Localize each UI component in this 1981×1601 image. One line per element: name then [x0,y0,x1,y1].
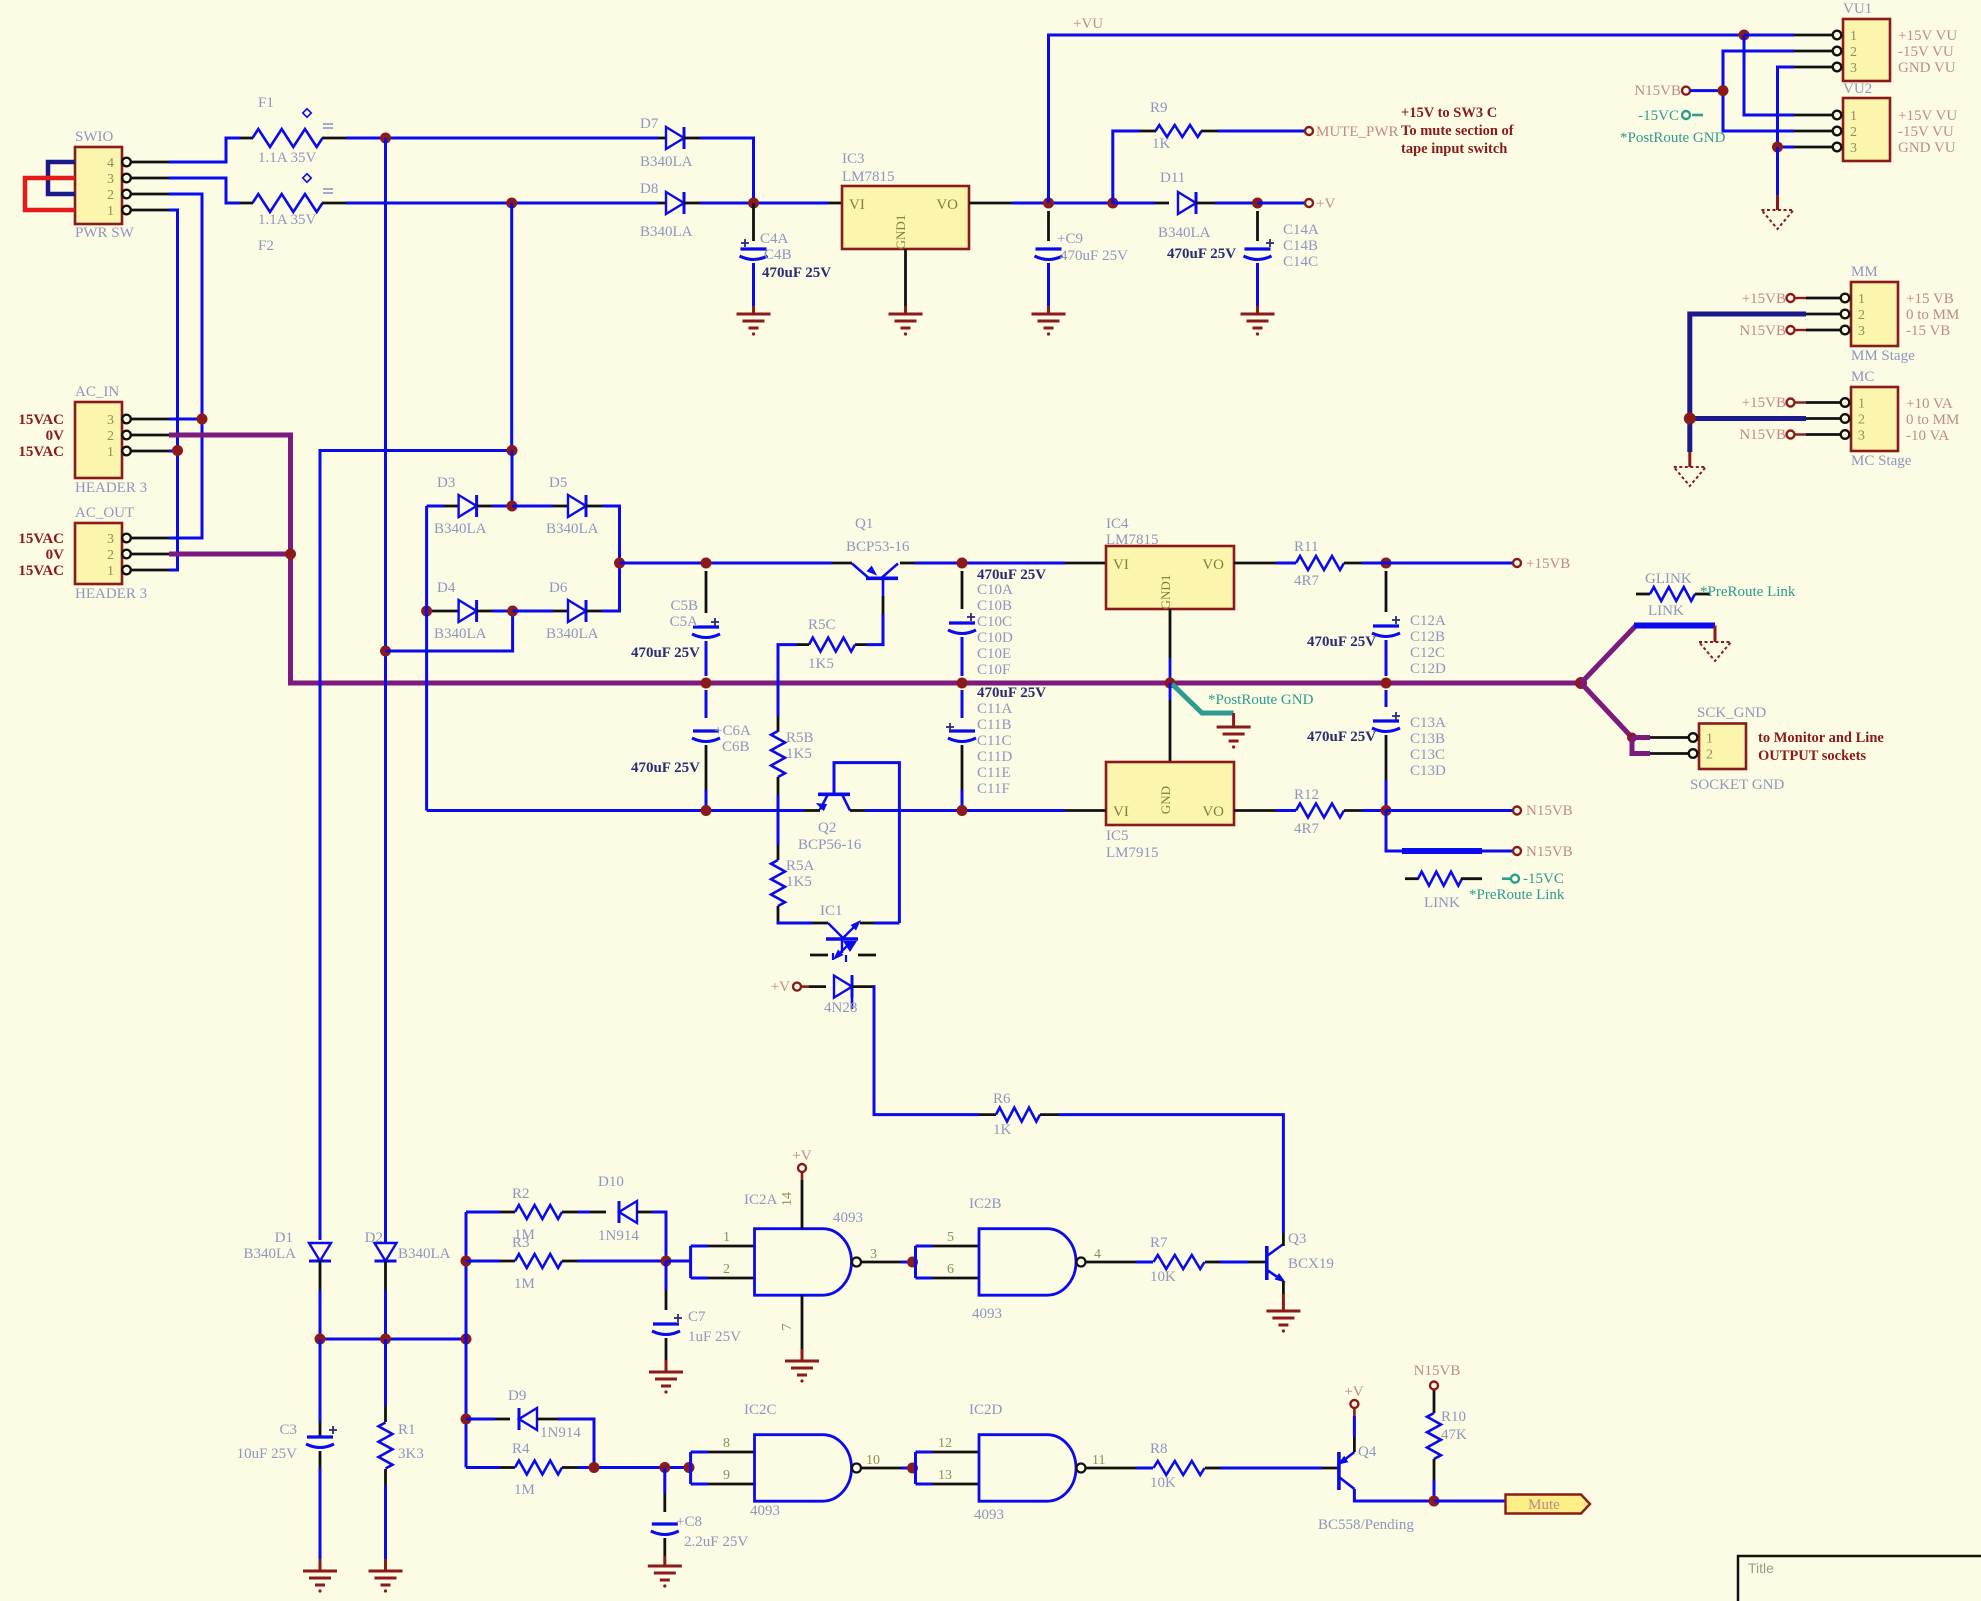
svg-text:AC_OUT: AC_OUT [75,505,134,521]
wire F1 to D7 rail y138 [346,137,658,140]
svg-text:15VAC: 15VAC [18,444,64,460]
svg-text:R6: R6 [993,1091,1011,1107]
junction D1 bus [315,1334,326,1345]
svg-text:13: 13 [938,1468,952,1483]
svg-text:+C9: +C9 [1057,231,1083,247]
svg-text:C7: C7 [688,1309,706,1325]
svg-text:C13A: C13A [1410,715,1446,731]
port +15VB (MM pin1) [1787,294,1795,302]
svg-text:4: 4 [1094,1247,1101,1262]
port +15VB (MC pin1) [1787,399,1795,407]
svg-text:LM7815: LM7815 [842,169,895,185]
svg-text:4R7: 4R7 [1294,821,1320,837]
port -15VC (teal lower) [1502,877,1511,880]
svg-text:B340LA: B340LA [434,521,487,537]
svg-text:R10: R10 [1441,1409,1466,1425]
diode D1 B340LA [244,1230,332,1339]
svg-text:4N28: 4N28 [824,1000,857,1016]
svg-text:*PostRoute GND: *PostRoute GND [1208,692,1314,708]
svg-text:C11B: C11B [977,717,1011,733]
svg-text:0V: 0V [46,547,65,563]
junction D9/R4 [589,1462,600,1473]
svg-text:D1: D1 [275,1230,293,1246]
port N15VB (lower) [1513,847,1521,855]
wire GND VU to ground [1776,147,1779,195]
resistor R6 1K [979,1091,1059,1138]
junction navy MC 0V [1684,413,1696,425]
svg-text:Title: Title [1748,1560,1774,1576]
svg-text:470uF 25V: 470uF 25V [631,645,700,661]
svg-text:VU1: VU1 [1843,1,1872,17]
nand gate IC2D 4093 [938,1402,1105,1523]
svg-text:1M: 1M [514,1276,535,1292]
svg-text:15VAC: 15VAC [18,412,64,428]
svg-text:C6B: C6B [722,739,750,755]
svg-text:2: 2 [1850,125,1857,140]
svg-text:D4: D4 [437,580,456,596]
wire +raw rail [620,562,833,565]
svg-text:3: 3 [107,532,114,547]
wire +15V VU to VU2 pin1 [1744,35,1794,115]
connector AC_IN HEADER 3 [18,384,169,496]
ground triangle VU [1762,210,1794,229]
svg-text:10uF 25V: 10uF 25V [237,1446,298,1462]
svg-text:470uF 25V: 470uF 25V [1060,248,1128,264]
capacitor C7 1uF 25V [652,1261,741,1372]
svg-text:C10A: C10A [977,582,1013,598]
svg-text:C12A: C12A [1410,613,1446,629]
wire switch loop red pins 3-1 [25,178,75,210]
svg-text:2: 2 [723,1262,730,1277]
svg-text:C14C: C14C [1283,254,1318,270]
svg-text:4093: 4093 [972,1306,1002,1322]
svg-text:+V: +V [1316,196,1335,212]
svg-text:R11: R11 [1294,539,1318,555]
svg-text:470uF 25V: 470uF 25V [1307,634,1376,650]
svg-text:4093: 4093 [974,1507,1004,1523]
svg-text:5: 5 [947,1230,954,1245]
resistor R5B 1K5 [771,716,814,845]
junction D3 cathode [507,501,518,512]
ground Q3 [1266,1310,1300,1313]
svg-text:*PreRoute Link: *PreRoute Link [1700,584,1796,600]
svg-text:D11: D11 [1160,170,1185,186]
svg-text:C11A: C11A [977,701,1012,717]
junction C12/C13 GND bus [1381,678,1392,689]
junction D9 left [461,1414,472,1425]
wire D3 cathode column [511,451,514,507]
svg-text:0V: 0V [46,428,65,444]
resistor R12 4R7 [1276,787,1386,837]
svg-text:VI: VI [1113,804,1129,820]
diode D3 B340LA [427,475,512,537]
wire purple 0V net AC_IN pin2 to AC_OUT pin2 to GND bus [169,435,305,683]
wire IC2C out [861,1467,901,1470]
wire 4N28 to R6 [873,987,979,1115]
fuse F1 1.1A 35V [240,95,346,166]
port N15VB [1513,807,1521,815]
svg-text:VO: VO [1202,804,1224,820]
svg-text:GND: GND [1158,786,1173,814]
junction column bus [461,1334,472,1345]
svg-text:VU2: VU2 [1843,81,1872,97]
svg-text:B340LA: B340LA [244,1246,297,1262]
svg-text:Q4: Q4 [1358,1444,1377,1460]
wire left column x466 [465,1212,468,1468]
svg-text:MM: MM [1851,264,1878,280]
wire D8 out [700,202,828,205]
capacitor C3 10uF 25V [237,1339,337,1571]
svg-text:VI: VI [1113,557,1129,573]
svg-text:C4A: C4A [760,231,789,247]
capacitor C6A/C6B 470uF 25V [631,690,751,811]
svg-text:MC Stage: MC Stage [1851,453,1912,469]
svg-text:BCX19: BCX19 [1288,1256,1334,1272]
wire VU1 pin1 stub [1744,34,1794,37]
svg-text:SWIO: SWIO [75,129,113,145]
wire GND link thick blue [1634,623,1715,629]
svg-text:3: 3 [1858,429,1865,444]
svg-text:Q3: Q3 [1288,1231,1306,1247]
svg-text:470uF 25V: 470uF 25V [762,265,831,281]
svg-text:2: 2 [107,548,114,563]
svg-text:1K5: 1K5 [786,746,812,762]
svg-text:+15V VU: +15V VU [1898,28,1957,44]
svg-text:15VAC: 15VAC [18,563,64,579]
capacitor C10A-F 470uF 25V [948,567,1046,678]
wire F2 column down [510,203,513,451]
svg-text:D10: D10 [598,1174,624,1190]
junction -15V VU column [1718,85,1729,96]
junction C12 top [1381,558,1392,569]
junction R3/D10/C7 [661,1256,672,1267]
svg-text:C4B: C4B [764,247,792,263]
capacitor C8 2.2uF 25V [651,1468,749,1567]
svg-text:R2: R2 [512,1186,530,1202]
svg-text:-15 VB: -15 VB [1906,323,1950,339]
junction +VU at VU1 pin1 [1739,30,1750,41]
ground triangle MM/MC [1688,452,1691,467]
svg-text:2: 2 [107,188,114,203]
connector SWIO (PWR SW) [75,129,169,241]
svg-text:C12C: C12C [1410,645,1445,661]
svg-text:+VU: +VU [1073,16,1103,32]
junction D4 cathode [507,606,518,617]
svg-text:PWR SW: PWR SW [75,225,135,241]
svg-text:3: 3 [1850,141,1857,156]
junction GND VU [1772,142,1783,153]
svg-text:R1: R1 [398,1422,416,1438]
svg-text:3: 3 [870,1247,877,1262]
wire F2 to D8 rail y203 [346,202,658,205]
junction R3 left [461,1256,472,1267]
resistor R7 10K [1150,1235,1248,1285]
wire -raw rail [427,809,804,812]
resistor R3 1M [466,1235,666,1292]
svg-text:D5: D5 [549,475,567,491]
flag Mute [1506,1495,1591,1514]
connector AC_OUT HEADER 3 [18,505,169,602]
IC1 regulator symbol [810,903,899,963]
svg-text:R5B: R5B [786,730,814,746]
wire Q2 base loop [834,763,899,923]
wire D3/D4 anode column [425,506,428,811]
svg-text:C11F: C11F [977,781,1010,797]
ground C3 [303,1570,337,1573]
svg-text:GND1: GND1 [1158,575,1173,610]
svg-text:Q2: Q2 [818,820,836,836]
svg-text:47K: 47K [1441,1427,1467,1443]
svg-text:470uF 25V: 470uF 25V [977,567,1046,583]
junction C5 top [701,558,712,569]
wire SWIO pin1 / AC_IN pin1 / AC_OUT pin1 column x177 [169,210,178,570]
wire +VU net [1049,35,1741,203]
svg-text:C11E: C11E [977,765,1011,781]
wire F1 column down to D2 column [384,138,387,1240]
svg-text:IC2D: IC2D [969,1402,1003,1418]
wire IC2C input bracket [691,1452,755,1484]
regulator IC3 LM7815 [828,151,969,314]
svg-text:+15VB: +15VB [1742,291,1786,307]
regulator IC5 LM7915 [1065,683,1276,861]
svg-text:10K: 10K [1150,1475,1176,1491]
port N15VB (MC pin3) [1787,431,1795,439]
svg-text:N15VB: N15VB [1634,83,1681,99]
svg-text:D6: D6 [549,580,568,596]
svg-text:N15VB: N15VB [1739,323,1786,339]
svg-text:+15VB: +15VB [1526,556,1570,572]
port +15VB [1513,559,1521,567]
svg-text:+V: +V [771,979,790,995]
svg-text:GND VU: GND VU [1898,60,1956,76]
wire GND VU net [1778,67,1795,147]
svg-text:Q1: Q1 [855,516,873,532]
svg-text:D3: D3 [437,475,455,491]
wire to N15VB port [1386,809,1513,812]
svg-text:BCP56-16: BCP56-16 [798,837,862,853]
junction C5/C6 GND bus [701,678,712,689]
svg-text:2: 2 [1706,748,1713,763]
wire AC_IN pin1 link [169,450,178,453]
junction +raw rail [614,558,625,569]
port +V [1305,199,1313,207]
svg-text:1: 1 [1850,109,1857,124]
svg-text:IC2B: IC2B [969,1196,1002,1212]
junction purple AC_OUT pin2 [285,549,296,560]
svg-text:B340LA: B340LA [1158,225,1211,241]
connector MC (MC Stage) [1806,369,1959,469]
svg-text:LM7915: LM7915 [1106,845,1159,861]
svg-text:B340LA: B340LA [546,521,599,537]
svg-text:1: 1 [107,445,114,460]
wire navy MC pin2 [1690,416,1806,421]
svg-text:tape input switch: tape input switch [1401,141,1507,157]
svg-text:R12: R12 [1294,787,1319,803]
svg-text:N15VB: N15VB [1526,844,1573,860]
resistor R8 10K [1150,1441,1322,1491]
svg-text:B340LA: B340LA [398,1246,451,1262]
wire switch loop navy pins 4-2 [48,162,75,194]
svg-text:IC3: IC3 [842,151,865,167]
annotation mute note [1401,105,1514,157]
wire IC2A input bracket [691,1246,755,1278]
junction F1 column [380,133,391,144]
annotation SCK note [1758,730,1884,764]
svg-text:1: 1 [1858,397,1865,412]
svg-text:C14A: C14A [1283,222,1319,238]
diode D8 B340LA [640,181,700,240]
resistor R9 1K [1113,100,1305,203]
ground R1 [369,1570,403,1573]
svg-text:+15V VU: +15V VU [1898,108,1957,124]
capacitor C11A-F 470uF 25V [946,685,1046,811]
junction AC_IN pin1 [172,445,183,456]
svg-text:C10D: C10D [977,630,1013,646]
port N15VB (VU) [1682,87,1690,95]
junction F1/D4 link [380,646,391,657]
svg-text:SCK_GND: SCK_GND [1697,705,1766,721]
svg-text:14: 14 [780,1192,795,1206]
svg-text:AC_IN: AC_IN [75,384,119,400]
wire to Mute flag [1434,1500,1506,1503]
svg-text:D8: D8 [640,181,658,197]
svg-text:MUTE_PWR: MUTE_PWR [1316,124,1399,140]
nand gate IC2B 4093 [947,1196,1101,1322]
svg-text:0 to MM: 0 to MM [1906,412,1959,428]
wire purple fork up [1581,626,1636,684]
svg-text:3: 3 [107,413,114,428]
svg-text:4R7: 4R7 [1294,573,1320,589]
svg-text:+10 VA: +10 VA [1906,396,1953,412]
svg-text:C5B: C5B [670,598,698,614]
svg-text:MC: MC [1851,369,1874,385]
svg-text:1N914: 1N914 [598,1228,639,1244]
wire SWIO pin4 to F1 [169,138,240,162]
svg-text:Mute: Mute [1528,1497,1560,1513]
svg-text:1.1A 35V: 1.1A 35V [258,212,317,228]
svg-text:-15V VU: -15V VU [1898,44,1954,60]
junction F2 column [506,198,517,209]
svg-text:C10B: C10B [977,598,1012,614]
svg-text:2: 2 [1858,413,1865,428]
svg-text:-15VC: -15VC [1523,871,1564,887]
ground IC3 [889,313,923,316]
diode D11 B340LA [1113,170,1253,241]
svg-text:1K5: 1K5 [786,874,812,890]
svg-text:3: 3 [1850,61,1857,76]
svg-text:VO: VO [936,197,958,213]
capacitor C14A/B/C 470uF 25V [1167,211,1319,314]
port -15VC (teal, unconnected) [1682,111,1690,119]
svg-text:8: 8 [723,1436,730,1451]
svg-text:15VAC: 15VAC [18,531,64,547]
transistor Q2 BCP56-16 [798,794,865,853]
svg-text:N15VB: N15VB [1414,1363,1461,1379]
wire IC2B out [1086,1261,1137,1264]
svg-text:C14B: C14B [1283,238,1318,254]
resistor GLINK (PreRoute link) [1636,571,1710,619]
svg-text:HEADER 3: HEADER 3 [75,480,147,496]
svg-text:D7: D7 [640,116,659,132]
svg-text:1: 1 [107,204,114,219]
svg-text:LINK: LINK [1648,603,1684,619]
diode D7 B340LA [640,116,700,170]
svg-text:11: 11 [1092,1453,1105,1468]
svg-text:+15VB: +15VB [1742,395,1786,411]
resistor R11 4R7 [1276,539,1362,589]
nand gate IC2C 4093 [723,1402,880,1519]
svg-text:R4: R4 [512,1441,530,1457]
wire N15VB to -15V VU column [1690,89,1723,92]
wire raw AC A to D1 column [320,451,512,1241]
svg-text:R7: R7 [1150,1235,1168,1251]
svg-text:1K: 1K [993,1122,1012,1138]
svg-text:D2: D2 [365,1230,383,1246]
ground C8 [648,1565,682,1568]
ground C9 [1032,313,1066,316]
svg-text:F2: F2 [258,238,274,254]
svg-text:BCP53-16: BCP53-16 [846,539,910,555]
wire R6 to Q3 collector [1059,1115,1283,1233]
transistor Q1 BCP53-16 [832,516,915,579]
svg-text:GLINK: GLINK [1645,571,1692,587]
port N15VB (MM pin3) [1787,326,1795,334]
svg-text:R3: R3 [512,1235,530,1251]
svg-text:C10C: C10C [977,614,1012,630]
diode D5 B340LA [512,475,620,563]
ground C14 [1241,313,1275,316]
svg-text:LM7815: LM7815 [1106,532,1159,548]
svg-text:*PostRoute GND: *PostRoute GND [1620,130,1726,146]
svg-text:C13B: C13B [1410,731,1445,747]
svg-text:C11C: C11C [977,733,1011,749]
capacitor C13A-D 470uF 25V [1307,690,1446,811]
svg-text:+15V to SW3 C: +15V to SW3 C [1401,105,1497,121]
svg-text:-15V VU: -15V VU [1898,124,1954,140]
svg-text:2: 2 [1858,308,1865,323]
svg-text:C3: C3 [279,1422,297,1438]
fuse F2 1.1A 35V [240,174,346,254]
junction C8 [659,1462,670,1473]
svg-text:VO: VO [1202,557,1224,573]
svg-text:-10 VA: -10 VA [1906,428,1949,444]
wire N15VB lower branch [1386,811,1402,852]
resistor LINK (PreRoute) [1405,872,1482,911]
svg-text:-15VC: -15VC [1638,108,1679,124]
wire IC2A out [861,1261,901,1264]
wire -15V VU net [1723,51,1794,131]
svg-text:IC5: IC5 [1106,828,1129,844]
diode D4 B340LA [427,580,513,642]
connector SCK_GND SOCKET GND [1650,705,1784,793]
svg-text:470uF 25V: 470uF 25V [1307,729,1376,745]
svg-text:470uF 25V: 470uF 25V [977,685,1046,701]
svg-text:C12D: C12D [1410,661,1446,677]
transistor Q4 BC558/Pending [1318,1437,1430,1533]
title block frame [1738,1556,1981,1601]
resistor R5A 1K5 [771,845,815,923]
svg-text:GND VU: GND VU [1898,140,1956,156]
ground IC2A [785,1360,819,1363]
diode D9 1N914 [466,1388,594,1468]
svg-text:3: 3 [107,172,114,187]
port N15VB (R10) [1430,1382,1438,1390]
svg-text:D9: D9 [508,1388,526,1404]
junction C13 bottom [1381,805,1392,816]
svg-text:0 to MM: 0 to MM [1906,307,1959,323]
junction regulators GND [1165,678,1176,689]
junction C14 node [1252,198,1263,209]
